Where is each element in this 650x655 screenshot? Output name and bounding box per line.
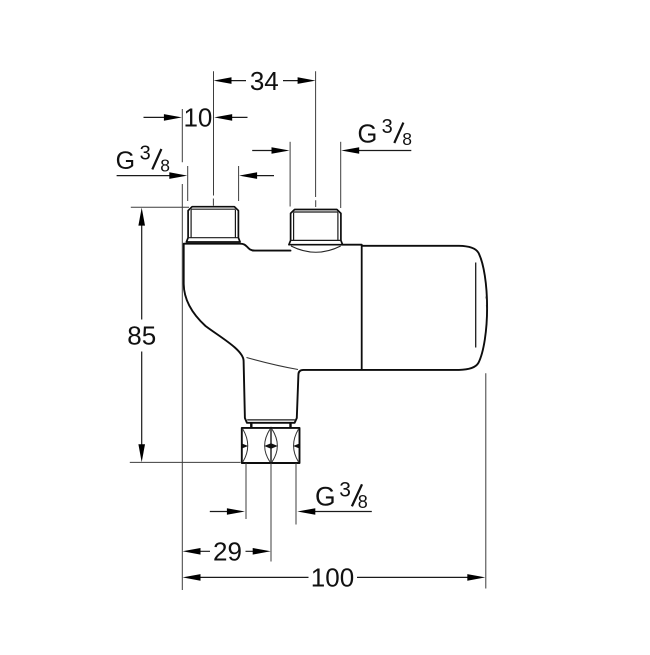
body outline	[184, 244, 487, 423]
svg-text:34: 34	[250, 66, 279, 96]
extension line: left port left edge	[187, 166, 189, 201]
extension line: left port right edge	[238, 166, 240, 201]
spout inner bottom line	[247, 419, 295, 421]
nut corner edge line	[270, 428, 272, 463]
label G3/8 left	[116, 143, 170, 176]
left port inner thread lines	[188, 209, 238, 238]
extension line: right port centerline	[315, 71, 317, 207]
svg-text:85: 85	[127, 321, 156, 351]
extension line: 85 bottom	[130, 461, 241, 463]
nut chamfer marks	[242, 427, 300, 464]
svg-text:8: 8	[160, 155, 170, 175]
extension line: 85 top	[131, 206, 189, 208]
svg-text:8: 8	[358, 492, 368, 512]
leader arrow G3/8 left	[117, 175, 171, 177]
extension line: right port right edge	[340, 142, 342, 208]
dimension 34	[231, 80, 298, 82]
cartridge junction line	[361, 246, 363, 369]
cylinder end shading ticks	[485, 297, 488, 310]
barrel arc under right port	[291, 246, 341, 252]
opposing arrow tailpiece left edge	[210, 511, 228, 513]
right port inner thread lines	[291, 212, 341, 240]
svg-text:G: G	[116, 147, 135, 175]
cylinder flat end face line	[475, 263, 477, 348]
svg-text:8: 8	[402, 129, 412, 149]
leader arrow G3/8 top right	[359, 150, 412, 152]
svg-text:29: 29	[213, 536, 242, 566]
extension lines below nut	[246, 463, 296, 562]
svg-text:G: G	[358, 121, 378, 149]
opposing arrow left port right edge	[257, 175, 275, 177]
svg-text:3: 3	[382, 116, 393, 138]
dimension 10	[144, 116, 248, 118]
body top edge right of right port	[342, 244, 362, 246]
svg-text:3: 3	[339, 478, 351, 501]
nut face silhouette arcs	[243, 429, 299, 462]
extension line: right port left edge	[289, 142, 291, 207]
label G3/8 top right	[358, 116, 412, 149]
leader arrow G3/8 bottom	[315, 511, 372, 513]
dimension 100	[200, 576, 468, 578]
svg-text:G: G	[315, 482, 336, 512]
svg-text:3: 3	[140, 143, 151, 165]
svg-text:100: 100	[311, 563, 354, 593]
svg-text:10: 10	[183, 103, 212, 133]
right inlet port G3/8	[289, 210, 343, 245]
body fillet silhouette curve	[247, 358, 299, 370]
opposing arrow right port left edge	[252, 150, 272, 152]
extension line: 100 right	[485, 373, 487, 588]
dimension 85	[141, 225, 143, 445]
extension line: body left / baseline	[181, 109, 183, 590]
label G3/8 bottom	[315, 478, 368, 512]
hex nut	[242, 428, 300, 463]
dimension 29	[200, 550, 253, 552]
extension line: left port centerline	[212, 71, 214, 206]
connector posts below spout	[251, 423, 290, 428]
left inlet port G3/8	[186, 207, 240, 242]
